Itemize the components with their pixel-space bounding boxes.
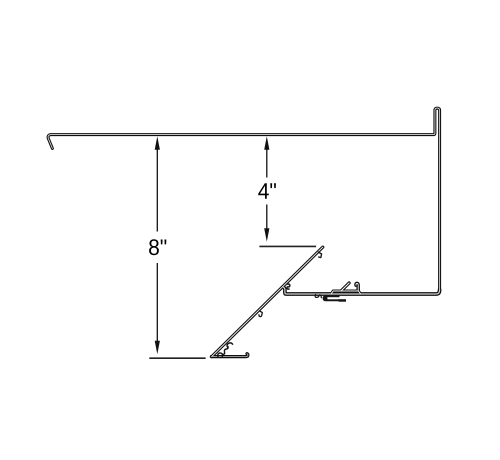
- soffit channel core: [284, 287, 440, 294]
- 8" label: [149, 239, 166, 255]
- 4" dimension line upper segment: [266, 150, 268, 178]
- diagonal strut core: [212, 247, 323, 357]
- small solid details: [218, 252, 322, 357]
- diagonal strut outline: [212, 247, 323, 357]
- 8" up arrowhead: [155, 136, 160, 150]
- lock stem core: [356, 283, 358, 290]
- hem pocket right extension: [339, 299, 346, 302]
- foot wavy crimp chain: [218, 353, 223, 357]
- 4" dimension line lower segment: [266, 205, 268, 230]
- foot crimp S-link: [222, 347, 228, 355]
- lock finger core: [341, 283, 349, 291]
- foot flange outline: [211, 354, 248, 357]
- lock ledge core: [331, 291, 360, 294]
- hem pocket slot: [327, 297, 339, 299]
- 4" bottom extension line: [259, 245, 316, 247]
- lock stem outline: [356, 283, 358, 290]
- 8 inch dimension: [156, 150, 158, 342]
- 8" bottom extension line: [149, 357, 205, 359]
- foot flange core: [211, 354, 248, 357]
- top panel / fascia outline: [48, 108, 440, 290]
- 8" dimension line upper segment: [156, 150, 158, 232]
- 8" down arrowhead: [155, 341, 160, 355]
- 4" up arrowhead: [264, 136, 269, 150]
- lock ledge outline: [331, 291, 360, 294]
- 4 inch dimension: [266, 150, 268, 230]
- lower "2" squiggle under soffit line: [315, 294, 321, 297]
- lock finger outline: [341, 283, 349, 291]
- foot crimp upper hook: [227, 343, 233, 348]
- top panel / fascia core: [48, 108, 440, 290]
- profile outlines (outer dark strokes): [48, 108, 440, 357]
- 4" down arrowhead: [264, 228, 269, 242]
- junction hook at soffit line: [287, 284, 290, 289]
- lower hem pocket under soffit line: [323, 295, 340, 301]
- profile cores (inner light strokes): [48, 108, 440, 357]
- soffit channel outline: [284, 287, 440, 294]
- mid-diagonal barb: [259, 311, 262, 317]
- 4" label: [258, 183, 276, 198]
- top barb near diagonal tip: [318, 252, 321, 258]
- 8" dimension line lower segment: [156, 263, 158, 342]
